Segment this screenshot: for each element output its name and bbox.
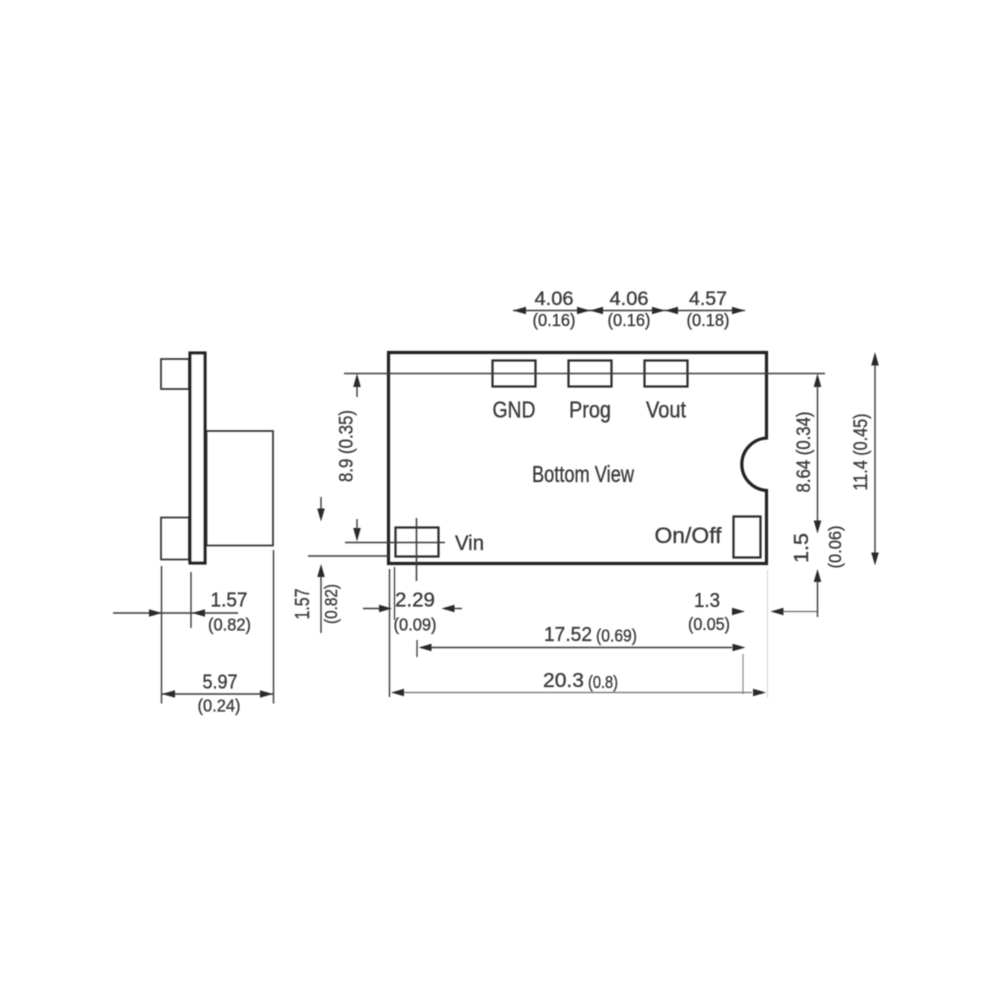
svg-text:5.97: 5.97 — [203, 672, 238, 694]
extension for On/Off center — [742, 654, 744, 694]
extension line below tab left edge — [161, 566, 163, 704]
extension line below bar left edge — [190, 572, 192, 628]
svg-text:1.57: 1.57 — [292, 589, 314, 620]
extension line below body right edge — [273, 550, 275, 704]
side view bottom pin tab — [161, 518, 189, 560]
svg-text:11.4 (0.45): 11.4 (0.45) — [851, 414, 872, 491]
dim 11.4 (0.45) — [871, 352, 879, 366]
GND pad — [493, 361, 536, 387]
dim 20.3 (0.8) — [391, 689, 404, 697]
svg-text:8.64 (0.34): 8.64 (0.34) — [794, 412, 815, 493]
svg-text:1.3: 1.3 — [694, 590, 720, 612]
pad centerline / extension — [344, 373, 825, 375]
extension below Vin pad left edge — [394, 567, 396, 620]
side view body rectangle — [207, 431, 274, 546]
extension below package left edge — [389, 569, 391, 697]
svg-text:(0.09): (0.09) — [394, 615, 437, 635]
svg-text:(0.82): (0.82) — [208, 615, 251, 635]
svg-text:17.52: 17.52 — [544, 624, 592, 646]
svg-text:1.5: 1.5 — [791, 533, 813, 563]
svg-text:Bottom View: Bottom View — [532, 461, 635, 487]
side view vertical bar (package profile) — [190, 353, 205, 563]
Prog pad — [569, 361, 612, 387]
dim 1.5 (0.06) — [814, 569, 822, 582]
Vin pad — [396, 528, 439, 557]
dim 5.97 (0.24) horizontal — [162, 693, 273, 695]
Vout pad — [645, 361, 688, 387]
svg-text:(0.69): (0.69) — [596, 626, 637, 646]
svg-text:(0.18): (0.18) — [687, 310, 730, 330]
side view top pin tab — [161, 359, 189, 389]
svg-text:GND: GND — [493, 397, 536, 423]
Vin pad vertical centerline — [416, 518, 418, 581]
svg-text:1.57: 1.57 — [211, 590, 248, 612]
svg-text:(0.82): (0.82) — [321, 584, 341, 624]
svg-text:4.06: 4.06 — [610, 288, 649, 310]
dim 1.57 (0.82) horizontal — [113, 612, 238, 614]
svg-text:(0.05): (0.05) — [688, 614, 730, 634]
svg-text:On/Off: On/Off — [655, 523, 723, 548]
svg-text:8.9 (0.35): 8.9 (0.35) — [337, 410, 358, 482]
dim 17.52 (0.69) — [419, 644, 432, 652]
svg-text:Vout: Vout — [646, 397, 687, 423]
svg-text:Vin: Vin — [455, 532, 484, 555]
dim 1.57 (0.82) vertical — [320, 497, 322, 513]
svg-text:Prog: Prog — [569, 397, 611, 423]
svg-text:20.3: 20.3 — [543, 670, 584, 692]
svg-text:(0.16): (0.16) — [608, 310, 651, 330]
svg-text:2.29: 2.29 — [395, 590, 435, 612]
extension line at package bottom left — [308, 555, 389, 557]
extension for Vin pad center (17.52 left boundary) — [416, 640, 418, 657]
svg-text:(0.24): (0.24) — [198, 696, 241, 716]
svg-text:(0.06): (0.06) — [825, 526, 845, 569]
svg-text:4.06: 4.06 — [535, 288, 574, 310]
svg-text:(0.8): (0.8) — [588, 672, 618, 692]
dim 8.9 (0.35) — [353, 374, 361, 388]
On/Off pad — [734, 517, 761, 558]
dim 2.29 (0.09) — [363, 608, 380, 610]
svg-text:4.57: 4.57 — [689, 288, 727, 310]
faint extension below package right edge — [767, 570, 769, 698]
dim 8.64 (0.34) — [814, 374, 822, 388]
svg-text:(0.16): (0.16) — [533, 310, 576, 330]
Vin pad horizontal centerline — [345, 542, 445, 544]
package outline with right-edge notch — [389, 353, 767, 564]
